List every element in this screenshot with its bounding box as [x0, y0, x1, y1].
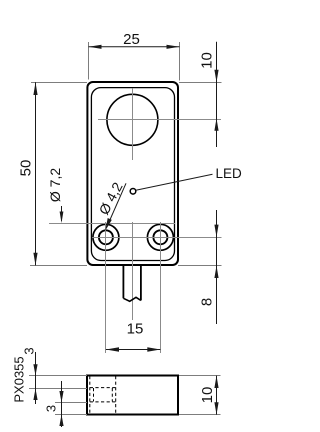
25 dim extension left: [88, 42, 90, 80]
mounting hole right outer: [147, 224, 173, 250]
cable right wall: [140, 265, 142, 300]
label Ø 4,2 with leader: [95, 179, 126, 231]
dimension 10 (side view right): [199, 376, 219, 415]
hidden through hole right: [111, 388, 113, 402]
holes horizontal centerline: [92, 237, 222, 239]
side bottom extension left D: [55, 414, 87, 416]
dimension 15: [106, 321, 160, 352]
svg-text:PX0355: PX0355: [11, 356, 26, 402]
circle horizontal centerline: [98, 119, 221, 121]
counterbore extension left C: [55, 402, 87, 404]
hidden counterbore step bottom: [90, 401, 116, 403]
side bottom extension right: [179, 414, 221, 416]
LED dot: [130, 189, 136, 195]
hidden hole left edge: [89, 376, 91, 414]
25 dim extension right: [179, 42, 181, 81]
hidden counterbore step top: [90, 387, 116, 389]
svg-text:Ø 7,2: Ø 7,2: [47, 168, 63, 202]
sensor body inner outline: [91, 88, 174, 261]
sensing face circle: [107, 94, 158, 145]
svg-text:8: 8: [199, 298, 216, 306]
svg-text:25: 25: [123, 31, 140, 48]
svg-text:LED: LED: [216, 166, 243, 181]
svg-text:10: 10: [199, 52, 216, 69]
label Ø 7,2 with leader: [47, 168, 64, 223]
svg-text:50: 50: [18, 160, 35, 177]
dimension 25: [89, 31, 180, 49]
mounting hole left outer: [93, 224, 119, 250]
cable left wall: [122, 265, 124, 298]
body top extension left (50 dim): [31, 82, 87, 84]
left hole vertical centerline: [105, 222, 107, 353]
svg-text:15: 15: [127, 321, 144, 338]
dimension 8 (right): [199, 210, 219, 324]
body top extension right: [179, 82, 222, 84]
dimension 3 (bottom left): [44, 381, 64, 427]
dimension 3 (top left): [22, 347, 38, 404]
hidden hole right edge: [115, 376, 117, 414]
right hole vertical centerline: [160, 222, 162, 353]
side top extension right: [179, 375, 221, 377]
middle/cable vertical centerline: [132, 222, 134, 320]
dimension 50: [18, 82, 38, 265]
circle vertical centerline: [132, 88, 134, 160]
mounting hole left inner: [99, 230, 113, 244]
sensor body outer outline: [87, 82, 178, 265]
hole top tangent line: [49, 223, 175, 225]
dimension 10 (top right): [199, 42, 219, 147]
body bottom extension left: [30, 265, 87, 267]
svg-text:10: 10: [199, 387, 216, 404]
cable break zigzag: [123, 297, 140, 301]
svg-text:3: 3: [44, 405, 59, 412]
side top extension left: [29, 375, 87, 377]
body bottom extension right: [178, 265, 222, 267]
LED leader: [136, 174, 213, 190]
side view body rect: [87, 376, 178, 415]
svg-text:3: 3: [22, 347, 37, 354]
mounting hole right inner: [153, 230, 167, 244]
hidden through hole left: [93, 388, 95, 402]
counterbore extension left B: [29, 388, 87, 390]
